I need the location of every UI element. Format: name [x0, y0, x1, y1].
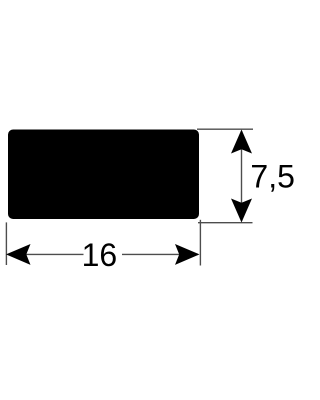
- extension line bottom (for 7,5): [198, 222, 253, 224]
- arrowhead right (16): [175, 244, 200, 265]
- svg-text:16: 16: [82, 237, 118, 273]
- extension line right (for 16): [199, 220, 201, 266]
- arrowhead down (7,5 bottom): [231, 199, 252, 223]
- extension line left (for 16): [5, 222, 7, 265]
- arrowhead left (16): [6, 244, 31, 265]
- extension line top (for 7,5): [197, 128, 253, 130]
- dimension line horizontal left segment (16): [8, 253, 84, 255]
- profile cross-section (black rounded rectangle): [8, 130, 199, 220]
- arrowhead up (7,5 top): [231, 130, 252, 154]
- dimension line vertical (7,5): [241, 131, 243, 221]
- dimension line horizontal right segment (16): [122, 253, 198, 255]
- svg-text:7,5: 7,5: [250, 158, 294, 194]
